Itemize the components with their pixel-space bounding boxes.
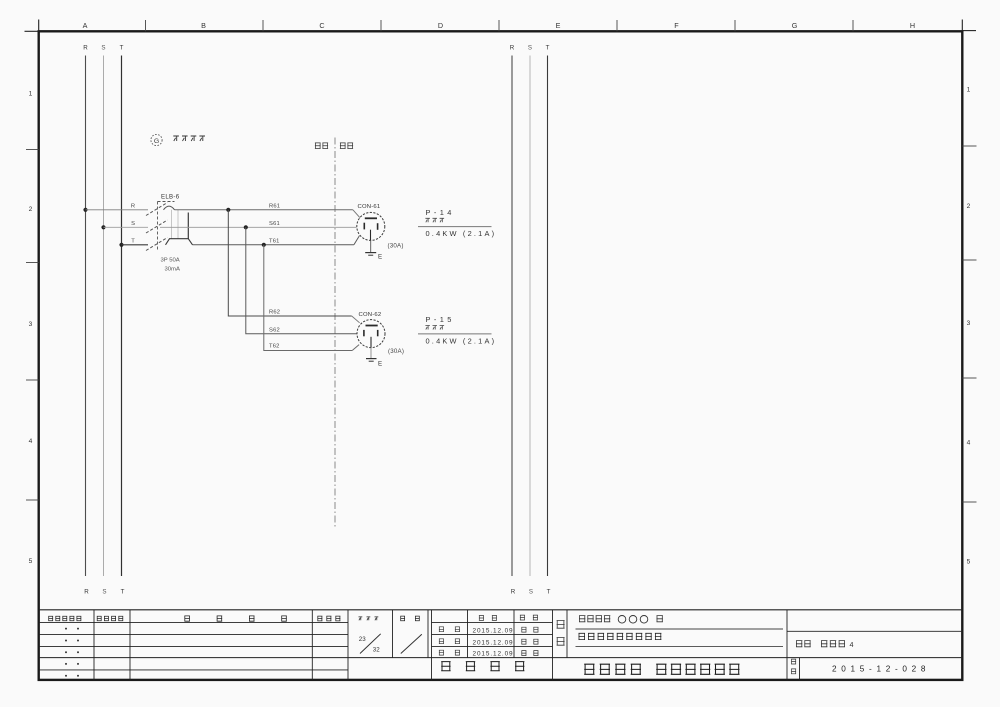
wire R61 [175,209,353,211]
ground E for CON-61 [370,240,372,252]
wire bus T to ELB input [122,244,149,246]
svg-text:3: 3 [967,320,971,327]
svg-text:H: H [910,21,915,30]
svg-text:2015.12.09: 2015.12.09 [473,639,514,646]
svg-text:T61: T61 [269,239,280,245]
CON-61 entry diagonals [353,210,360,218]
svg-text:2015-12-028: 2015-12-028 [832,664,930,673]
breaker T pole trip coil (trapezoid) [166,239,193,245]
CON-61 pin slots [365,217,377,219]
svg-text:4: 4 [850,640,854,649]
svg-text:1: 1 [29,91,33,98]
svg-text:P-14: P-14 [426,208,455,217]
svg-text:G: G [154,138,159,145]
svg-text:S: S [529,589,533,596]
svg-text:T: T [120,45,124,52]
panel boundary dash-dot line [334,138,336,528]
svg-text:1: 1 [967,87,971,94]
header: revision description column [184,616,286,621]
bus T (right group) [547,56,549,577]
svg-text:4: 4 [29,438,33,445]
project name: new plant electrical works [579,633,662,639]
wire T61 [193,244,354,246]
revision row dots [65,628,67,630]
breaker pole blades (dashed) [146,203,168,216]
svg-text:T62: T62 [269,343,280,349]
svg-text:23: 23 [359,636,366,643]
svg-text:S61: S61 [269,221,280,227]
svg-text:P-15: P-15 [426,315,455,324]
svg-text:0.4KW (2.1A): 0.4KW (2.1A) [426,229,497,238]
breaker ZCT window lines [171,210,173,239]
bus R (right group) [511,56,513,577]
svg-text:32: 32 [373,646,380,653]
wire S61 [160,226,357,228]
svg-text:R62: R62 [269,310,280,316]
wire drop to R62 [228,210,351,316]
svg-text:E: E [378,361,382,368]
svg-text:2015.12.09: 2015.12.09 [473,651,514,658]
header: page column [359,617,379,620]
svg-text:5: 5 [29,558,33,565]
company: Ikeda Electric Works Co. [584,664,641,674]
svg-text:S: S [102,589,106,596]
svg-text:2: 2 [967,203,971,210]
svg-text:2015.12.09: 2015.12.09 [473,627,514,634]
svg-text:R: R [511,589,516,596]
svg-text:3: 3 [29,321,33,328]
svg-text:C: C [319,21,324,30]
node: junction S61/S62 [244,225,248,229]
bus S (left incoming phase S) [103,56,105,577]
svg-text:ELB-6: ELB-6 [161,194,180,201]
block marker (G) [151,134,162,145]
drawing title: new panel circuit diagram 4 [796,641,811,647]
svg-text:S62: S62 [269,328,280,334]
svg-text:30mA: 30mA [165,267,180,273]
header: revision date column [48,616,81,621]
svg-text:R: R [83,45,88,52]
svg-text:R: R [131,203,135,209]
label "outside panel" [340,143,353,149]
svg-text:R61: R61 [269,204,280,210]
svg-text:T: T [131,238,135,244]
svg-text:5: 5 [967,559,971,566]
breaker R pole overcurrent element (hump) [164,206,175,210]
svg-text:(30A): (30A) [388,242,404,249]
svg-text:E: E [378,254,382,261]
signatures [521,627,538,632]
svg-text:R: R [84,589,89,596]
svg-text:E: E [556,21,561,30]
svg-text:T: T [121,589,125,596]
svg-text:A: A [83,21,88,30]
client name: Ltd. OOO [579,616,610,622]
header: date / signature [479,616,497,621]
wire bus S to ELB input [104,226,149,228]
wire drop to S62 [246,227,357,333]
svg-text:3P 50A: 3P 50A [161,258,180,264]
svg-text:(30A): (30A) [388,348,404,355]
svg-text:CON-61: CON-61 [358,204,381,210]
drawing number cell label [791,659,796,664]
header: revised-by column [317,616,340,621]
header: scale column [400,616,419,621]
rows: designed / drawn / checked [439,627,460,632]
svg-text:T: T [547,589,551,596]
node: junction T61/T62 [262,243,266,247]
svg-text:S: S [131,221,135,227]
svg-text:2: 2 [29,206,33,213]
wire bus R to ELB input [86,209,149,211]
bus T (left incoming phase T) [121,56,123,577]
svg-text:0.4KW (2.1A): 0.4KW (2.1A) [426,336,497,345]
svg-text:G: G [792,21,798,30]
header: revision mark column [97,616,123,621]
scale cell slash [401,634,422,653]
svg-text:CON-62: CON-62 [359,312,382,318]
node: tap on bus T [119,243,123,247]
svg-text:B: B [201,21,206,30]
bus S (right group) [529,56,531,577]
CON-62 pin slots [366,325,378,327]
svg-text:T: T [546,45,550,52]
node: tap on bus R [83,208,87,212]
node: tap on bus S [101,225,105,229]
ground E for CON-62 [370,348,372,359]
title block outline [39,609,963,611]
vertical label: drawing name [557,621,565,629]
svg-text:R: R [510,45,515,52]
label "inside panel" [315,143,328,149]
svg-text:F: F [674,21,679,30]
CON-62 entry diagonals [352,316,360,323]
label "block" (katakana) [173,136,205,141]
third angle projection [441,662,524,671]
bus R (left incoming phase R) [85,56,87,577]
svg-text:S: S [101,45,105,52]
svg-text:S: S [528,45,532,52]
wire drop to T62 [264,245,352,351]
svg-text:4: 4 [967,440,971,447]
svg-text:D: D [438,21,443,30]
node: junction R61/R62 [226,208,230,212]
